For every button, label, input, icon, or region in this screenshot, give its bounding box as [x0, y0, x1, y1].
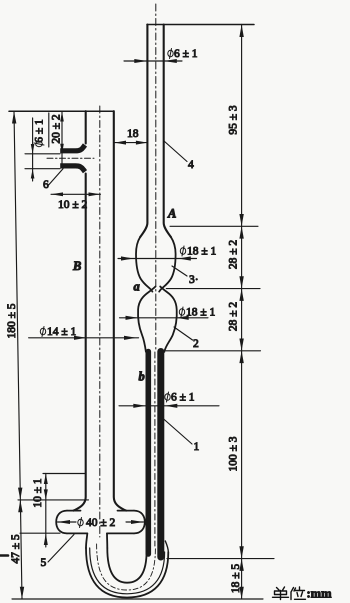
- svg-text:18 ± 1: 18 ± 1: [186, 307, 216, 319]
- U-bend inner wall: [107, 548, 146, 583]
- ø14 arrows: [74, 336, 87, 340]
- side tube centerline: [47, 157, 94, 159]
- svg-text:18 ± 5: 18 ± 5: [230, 564, 242, 594]
- side tube 6 thick walls (flared into tube B): [60, 145, 85, 151]
- svg-text:28 ± 2: 28 ± 2: [228, 240, 240, 270]
- svg-text:6 ± 1: 6 ± 1: [34, 119, 46, 143]
- right main dimension line: [241, 25, 243, 600]
- phi of ø14±1: [40, 328, 45, 335]
- capillary ø6 arrows: [133, 404, 146, 408]
- svg-text:47 ± 5: 47 ± 5: [10, 534, 22, 564]
- capillary tube 1 (thick black walls): [146, 352, 152, 555]
- ø40±2 dimension line inside bulb 5: [58, 521, 144, 523]
- upper ø18 arrows: [121, 256, 134, 260]
- capillary centerline: [154, 352, 156, 546]
- tube 4 centerline: [155, 4, 157, 350]
- svg-text:5: 5: [41, 557, 47, 569]
- extension line at y=350.8 (b level): [166, 350, 261, 352]
- phi of top ø6±1: [168, 50, 173, 57]
- svg-text:a: a: [134, 280, 140, 294]
- svg-text:100 ± 3: 100 ± 3: [228, 436, 240, 471]
- leader line for 3: [172, 266, 187, 276]
- right dim line arrows: [239, 25, 243, 38]
- bottom extension line: [12, 598, 263, 600]
- phi of capillary ø6±1: [165, 394, 170, 401]
- svg-text:B: B: [72, 259, 81, 273]
- ø14±1 dimension line: [29, 337, 139, 339]
- svg-text:40 ± 2: 40 ± 2: [86, 517, 116, 529]
- 位: [291, 587, 306, 600]
- left ø6±1 small dimension line: [32, 118, 34, 181]
- bulb 5 bottom edge with gap for stem: [67, 532, 134, 534]
- svg-text:18: 18: [127, 128, 139, 140]
- ø40 arrows: [58, 520, 71, 524]
- 18 dim arrows (outward): [115, 141, 127, 145]
- 20±2 arrows: [60, 112, 64, 122]
- svg-text:10 ± 1: 10 ± 1: [32, 478, 44, 508]
- svg-text:95 ± 3: 95 ± 3: [228, 105, 240, 135]
- phi of upper ø18±1: [180, 248, 185, 255]
- left main dimension line (slightly slanted as in scan): [14, 111, 22, 599]
- tube B left wall (gap at side tube): [74, 111, 86, 510]
- svg-text:20 ± 2: 20 ± 2: [51, 114, 63, 144]
- tube 4 left wall: [140, 25, 147, 238]
- bulb 5 right cap: [134, 511, 145, 534]
- stem below bulb 5 into U-bend: [86, 533, 87, 548]
- upper ø18±1 dimension line: [118, 258, 197, 260]
- svg-text:10 ± 2: 10 ± 2: [58, 199, 88, 211]
- side tube bore extension lines: [25, 153, 60, 155]
- svg-text:2: 2: [193, 338, 199, 350]
- svg-text:3·: 3·: [189, 274, 199, 286]
- 10±2 arrows (outward): [51, 192, 63, 196]
- extension line at y=288.6 (a waist level): [166, 288, 260, 290]
- svg-text:18 ± 1: 18 ± 1: [187, 246, 217, 258]
- right branch outer line up to capillary: [165, 541, 168, 552]
- 单: [273, 587, 289, 600]
- bulb 2 outline: [138, 287, 155, 352]
- svg-text:4: 4: [188, 159, 194, 171]
- svg-text:6 ± 1: 6 ± 1: [174, 48, 198, 60]
- svg-text:6 ± 1: 6 ± 1: [171, 392, 195, 404]
- leader line for 1: [163, 418, 193, 444]
- extension line at y=558.6 (capillary bottom): [167, 558, 274, 560]
- leader line for 6: [49, 169, 63, 185]
- phi symbols (drawn): [34, 49, 186, 528]
- svg-text:28 ± 2: 28 ± 2: [228, 302, 240, 332]
- svg-text::mm: :mm: [307, 587, 333, 601]
- 10±1 extension lines: [43, 473, 86, 475]
- leader line for 5: [48, 535, 74, 563]
- 20±2 dimension line: [61, 112, 63, 164]
- small ø6 left arrows: [31, 144, 35, 154]
- ø6±1 underline (rotated): [48, 113, 50, 147]
- left dim line arrows: [12, 111, 16, 123]
- lower ø18±1 dimension line: [120, 317, 209, 319]
- leader line for 4: [164, 141, 187, 162]
- top ø6 arrows (inward): [134, 59, 147, 63]
- tube B top rim + extension line to left dimension: [9, 110, 114, 112]
- svg-text:b: b: [139, 370, 145, 384]
- svg-text:1: 1: [194, 441, 200, 453]
- phi of lower ø18±1: [179, 309, 184, 316]
- capillary ø6±1 dimension line: [119, 405, 219, 407]
- phi of ø40±2: [78, 519, 83, 526]
- bulb A outline: [136, 237, 152, 292]
- U-bend outer wall: [86, 548, 168, 598]
- tube 4 right wall: [164, 25, 171, 238]
- 10±2 dimension line under side tube: [51, 193, 101, 195]
- 10±1 arrows: [44, 474, 48, 485]
- U-bend bore centerline: [97, 544, 156, 590]
- phi of left rotated ø6±1: [36, 141, 43, 146]
- bulb 5 left cap: [56, 511, 67, 534]
- extension line at y=226.3 (A mark level): [170, 225, 258, 227]
- lower ø18 arrows: [126, 316, 139, 320]
- U-bend outer wall inner line (glass thickness): [90, 548, 165, 594]
- stray scan mark bottom left: [0, 554, 8, 557]
- tube 4 top rim and extension line to right dimension: [147, 24, 254, 26]
- top ø6±1 dimension line: [124, 60, 182, 62]
- tube B centerline: [99, 106, 101, 537]
- svg-text:6: 6: [43, 179, 49, 191]
- svg-text:180 ± 5: 180 ± 5: [6, 303, 18, 338]
- svg-text:A: A: [167, 207, 176, 221]
- tube B right wall: [114, 111, 126, 510]
- leader line for 2: [174, 327, 193, 340]
- 10±1 dimension line: [45, 474, 47, 548]
- svg-text:14 ± 1: 14 ± 1: [47, 326, 77, 338]
- bulb 5 (reservoir, rounded pill), top edge with gap for tube B: [67, 510, 134, 512]
- unit note 单位:mm (hanzi drawn as strokes): [273, 587, 306, 600]
- 18 dimension line: [115, 142, 148, 144]
